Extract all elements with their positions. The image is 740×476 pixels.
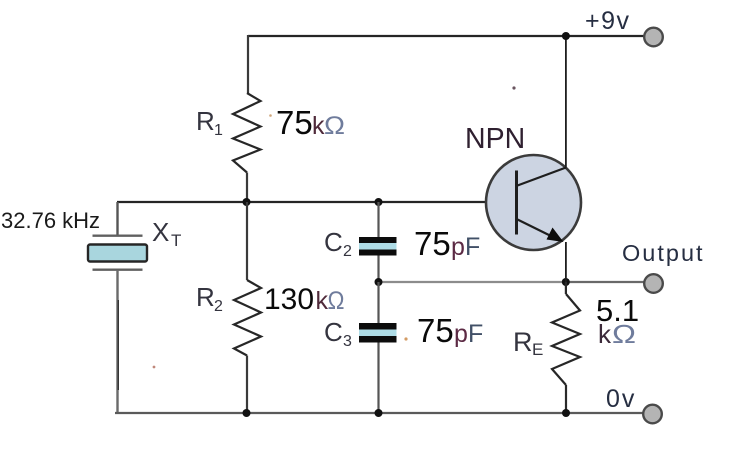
- value 75kΩ: [276, 104, 345, 141]
- capacitor C3: [359, 323, 397, 343]
- wire bottom rail: [115, 412, 644, 414]
- transistor Q1 emitter arrowhead: [547, 228, 564, 243]
- svg-text:NPN: NPN: [465, 123, 525, 155]
- resistor RE: [552, 294, 580, 385]
- wire R1 top lead: [247, 35, 249, 93]
- wire C3 bottom lead: [377, 343, 379, 414]
- svg-text:130: 130: [264, 283, 314, 316]
- svg-text:2: 2: [214, 298, 223, 315]
- value 75pF C2: [414, 225, 480, 262]
- value 75pF C3: [417, 312, 483, 349]
- svg-text:3: 3: [343, 333, 352, 350]
- svg-text:R: R: [196, 282, 215, 312]
- node RE bottom junction: [562, 409, 570, 417]
- node C2/C3 junction: [375, 278, 383, 286]
- svg-text:k: k: [598, 319, 612, 349]
- wire RE top lead: [565, 282, 567, 294]
- svg-text:75: 75: [414, 225, 451, 262]
- value kΩ RE: [598, 319, 636, 349]
- crystal XT bottom plate: [93, 269, 143, 271]
- wire C2 top lead: [377, 202, 379, 237]
- label C2: [324, 227, 352, 260]
- svg-text:Ω: Ω: [612, 319, 636, 349]
- svg-text:2: 2: [343, 243, 352, 260]
- svg-text:75: 75: [276, 104, 313, 141]
- wire top rail: [248, 35, 644, 37]
- artifact dot above transistor: [512, 86, 515, 89]
- wire output segment: [566, 281, 644, 283]
- svg-text:Ω: Ω: [328, 287, 345, 315]
- transistor Q1 base bar: [515, 171, 518, 235]
- crystal XT body: [88, 245, 147, 262]
- label 0v: [606, 385, 636, 413]
- svg-text:C: C: [324, 227, 343, 257]
- label R1: [196, 106, 223, 139]
- wire collector lead: [565, 36, 567, 168]
- terminal 0v: [643, 405, 662, 424]
- label XT: [152, 217, 181, 250]
- value 5.1: [596, 293, 639, 328]
- node R2 bottom junction: [243, 409, 251, 417]
- wire RE bottom lead: [565, 385, 567, 413]
- label NPN: [465, 123, 525, 155]
- svg-text:C: C: [324, 317, 343, 347]
- svg-text:32.76 kHz: 32.76 kHz: [1, 208, 100, 233]
- svg-text:+9v: +9v: [585, 7, 631, 35]
- label C3: [324, 317, 352, 350]
- svg-text:p: p: [451, 233, 465, 261]
- svg-text:p: p: [454, 320, 468, 348]
- label RE: [513, 327, 543, 359]
- wire crystal bottom leg: [116, 270, 119, 413]
- resistor R2: [234, 280, 261, 356]
- label Output: [622, 240, 705, 266]
- terminal +9v: [644, 28, 663, 47]
- svg-text:R: R: [513, 327, 533, 357]
- svg-text:F: F: [468, 320, 483, 348]
- label 32.76 kHz: [1, 208, 100, 233]
- artifact dot near R1 value: [269, 114, 272, 117]
- value 130kΩ: [264, 283, 345, 316]
- wire R2 top lead: [246, 202, 248, 280]
- svg-text:1: 1: [214, 122, 223, 139]
- terminal Output: [644, 274, 663, 293]
- wire crystal top leg: [116, 202, 118, 236]
- capacitor C2: [359, 237, 397, 256]
- svg-text:75: 75: [417, 312, 454, 349]
- wire R1 bottom lead: [246, 173, 248, 203]
- wire base rail: [117, 201, 516, 203]
- node collector/+9v junction: [562, 32, 570, 40]
- node R1/R2 junction: [243, 198, 251, 206]
- wire C3 top lead: [377, 282, 379, 323]
- node emitter junction: [562, 278, 570, 286]
- crystal XT top plate: [93, 234, 143, 236]
- node C3 bottom junction: [375, 409, 383, 417]
- svg-text:E: E: [532, 340, 543, 359]
- artifact dot near C3 value: [404, 337, 407, 340]
- svg-text:X: X: [152, 217, 169, 247]
- label R2: [196, 282, 223, 315]
- svg-text:Ω: Ω: [324, 112, 345, 140]
- svg-text:T: T: [171, 231, 181, 250]
- svg-text:R: R: [196, 106, 215, 136]
- wire mid output rail: [379, 281, 566, 283]
- label +9v: [585, 7, 631, 35]
- svg-text:F: F: [465, 233, 480, 261]
- transistor Q1 collector stroke: [518, 168, 567, 186]
- transistor Q1 emitter stroke: [518, 220, 557, 239]
- node C2 top junction: [375, 198, 383, 206]
- transistor Q1 body: [486, 155, 581, 250]
- wire C2 bottom lead: [377, 256, 379, 283]
- wire R2 bottom lead: [246, 356, 248, 414]
- wire emitter lead: [565, 242, 567, 282]
- svg-text:0v: 0v: [606, 385, 636, 413]
- resistor R1: [233, 93, 261, 173]
- svg-text:Output: Output: [622, 240, 705, 266]
- artifact dot near crystal leg: [153, 366, 156, 369]
